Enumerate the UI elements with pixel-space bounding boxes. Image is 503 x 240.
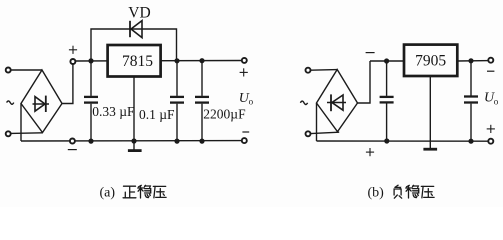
caption text zheng-wen-ya (a): [123, 185, 166, 198]
wire: [311, 69, 338, 72]
capacitor C2 0.1uF (a): [170, 61, 184, 141]
capacitor C3 2200uF (a): [195, 61, 209, 141]
capacitor C1 0.33uF (a): [84, 61, 98, 141]
AC source label ~ (b): [300, 101, 307, 104]
svg-text:o: o: [494, 96, 499, 106]
svg-text:VD: VD: [128, 5, 150, 22]
wire bottom rail (b): [317, 140, 491, 142]
junction: [132, 139, 136, 143]
capacitor C4 input (b): [380, 61, 394, 141]
label - (a): [68, 149, 77, 151]
svg-text:7905: 7905: [415, 53, 446, 70]
junction: [469, 139, 473, 143]
terminal J8 + output (b): [488, 139, 493, 144]
capacitor C5 output (b): [464, 61, 478, 141]
svg-text:2200µF: 2200µF: [203, 107, 246, 122]
junction: [385, 59, 389, 63]
label + output (b): [487, 125, 495, 133]
junction: [385, 139, 389, 143]
protection diode VD: [130, 21, 142, 38]
junction: [89, 139, 93, 143]
label + (a): [69, 46, 77, 54]
terminal J5 AC input top (b): [306, 68, 311, 73]
terminal J1 AC input top (a): [6, 68, 11, 73]
wire bottom rail (a): [21, 140, 244, 142]
bridge rectifier B2 diamond (b): [317, 70, 358, 132]
wire output rail (b): [457, 60, 491, 62]
wire: [358, 61, 371, 103]
label - output (b): [487, 70, 494, 72]
ground GND (b): [423, 141, 437, 149]
wire: [311, 132, 340, 133]
label + rail (b): [366, 148, 374, 156]
caption text fu-wen-ya (b): [394, 185, 434, 198]
node + unregulated (a): [70, 59, 75, 64]
bridge diode symbol (a): [33, 96, 50, 112]
terminal J6 AC input bottom (b): [306, 131, 311, 136]
wire: [11, 69, 42, 71]
terminal J4 - output (a): [242, 138, 247, 143]
wire 7905 GND pin: [429, 76, 431, 141]
terminal J3 + output (a): [242, 58, 247, 63]
wire 7815 GND pin: [133, 77, 135, 141]
svg-text:o: o: [249, 97, 254, 107]
bridge rectifier B1 diamond (a): [21, 70, 62, 133]
bridge diode symbol (b): [327, 94, 346, 111]
voltage regulator U2 7905: [404, 45, 457, 76]
junction: [469, 59, 473, 63]
label - input (b): [366, 52, 375, 54]
junction: [200, 139, 204, 143]
svg-text:(a): (a): [100, 186, 116, 201]
wire: [11, 132, 43, 135]
wire: [20, 104, 22, 142]
label - output (a): [242, 131, 249, 133]
wire top rail (a): [75, 60, 244, 63]
ground GND (a): [128, 141, 142, 151]
wire: [316, 103, 318, 141]
label + output (a): [240, 68, 248, 76]
svg-text:0.1 µF: 0.1 µF: [139, 107, 175, 122]
junction: [89, 59, 93, 63]
junction: [175, 139, 179, 143]
node - unregulated (a): [70, 139, 75, 144]
terminal J2 AC input bottom (a): [6, 131, 11, 136]
voltage regulator U1 7815: [108, 45, 161, 77]
wire top rail (b): [370, 60, 404, 62]
svg-text:7815: 7815: [122, 53, 153, 70]
junction: [200, 59, 204, 63]
svg-text:(b): (b): [368, 186, 385, 201]
AC source label ~ (a): [7, 101, 14, 104]
svg-text:0.33 µF: 0.33 µF: [92, 104, 135, 119]
terminal J7 - output (b): [488, 58, 493, 63]
wire VD branch: [91, 29, 177, 61]
wire: [62, 64, 73, 104]
junction: [175, 59, 179, 63]
